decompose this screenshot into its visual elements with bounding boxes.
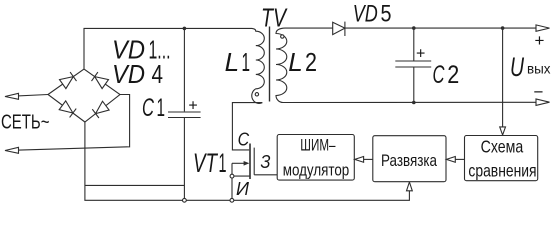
wire: gate to PWM block: [254, 174, 277, 176]
svg-text:1: 1: [157, 94, 166, 122]
svg-text:1: 1: [219, 148, 227, 178]
diode VD2 (upper-right): [95, 77, 109, 89]
svg-text:Схема: Схема: [481, 137, 524, 157]
svg-text:TV: TV: [261, 3, 288, 33]
polarity dot L1: [255, 93, 258, 96]
wire: minus output rail: [283, 101, 536, 103]
arrowhead + output: [536, 25, 550, 31]
svg-text:VD: VD: [112, 59, 145, 89]
wire: isolation to PWM: [364, 158, 373, 160]
svg-text:−: −: [534, 83, 544, 102]
node ring: VT1 source on rail: [230, 198, 234, 202]
wire: L1 to VT1 drain: [232, 103, 262, 150]
block PWM modulator: [277, 135, 354, 181]
node: C1 tap on bus: [183, 27, 187, 31]
transformer core: [269, 27, 271, 102]
transistor VT1 gate bar: [253, 148, 255, 175]
wire: AC input lower: [7, 95, 130, 151]
transistor VT1 substrate arrow: [232, 162, 245, 164]
wire: comparison to isolation: [455, 158, 464, 160]
svg-text:U: U: [510, 52, 524, 82]
svg-text:2: 2: [447, 61, 459, 89]
wire: minus rung to C1: [85, 184, 184, 186]
svg-text:+: +: [188, 97, 197, 114]
arrowhead into Razvyazka bottom: [407, 182, 413, 191]
svg-text:VT: VT: [193, 148, 219, 178]
transformer primary L1: [252, 28, 265, 103]
node: C2 bottom: [412, 101, 416, 105]
polarity dot L2: [281, 35, 284, 38]
svg-text:+: +: [535, 31, 545, 50]
svg-text:модулятор: модулятор: [283, 161, 350, 179]
wire: L2 top to VD5: [285, 27, 333, 29]
svg-text:С: С: [142, 94, 155, 122]
svg-text:1: 1: [242, 47, 251, 77]
arrowhead AC upper: [5, 93, 19, 99]
svg-text:З: З: [261, 152, 271, 172]
wire: substrate to source node: [231, 163, 233, 174]
wire: AC input upper: [7, 95, 48, 97]
capacitor C2: [413, 28, 415, 61]
diode VD5: [333, 22, 345, 34]
wire: DC minus rail from bridge: [85, 122, 410, 200]
svg-text:4: 4: [152, 59, 164, 89]
svg-text:+: +: [416, 45, 425, 62]
diode VD4 (lower-right): [96, 101, 110, 113]
svg-text:2: 2: [305, 47, 317, 77]
node ring: C1 on rail: [183, 198, 187, 202]
svg-text:И: И: [236, 179, 249, 199]
wire: source down to rail: [231, 178, 233, 198]
svg-text:5: 5: [381, 1, 392, 28]
svg-text:L: L: [225, 47, 240, 77]
arrowhead into isolation right: [446, 157, 455, 163]
svg-text:вых: вых: [527, 61, 551, 77]
node ring: VT1 source: [230, 174, 234, 178]
wire: bridge + to top bus: [84, 28, 252, 69]
svg-text:Развязка: Развязка: [381, 152, 438, 170]
svg-text:СЕТЬ~: СЕТЬ~: [1, 111, 50, 134]
arrowhead into comparison top: [500, 127, 506, 135]
svg-text:С: С: [238, 130, 250, 150]
svg-text:сравнения: сравнения: [468, 160, 536, 180]
node: feedback top: [501, 26, 505, 30]
svg-text:L: L: [288, 47, 303, 77]
transistor VT1 channel bar: [249, 144, 251, 180]
diode VD3 (lower-left): [59, 101, 73, 113]
block comparison circuit: [465, 136, 538, 181]
svg-text:VD: VD: [353, 1, 378, 28]
arrowhead - output: [536, 99, 550, 105]
block isolation (Razvyazka): [373, 136, 446, 182]
bridge rectifier ring VD1-VD4: [48, 69, 120, 122]
transistor VT1 source tap: [234, 175, 251, 177]
svg-text:ШИМ–: ШИМ–: [300, 136, 336, 154]
transformer secondary L2: [276, 28, 287, 102]
diode VD1 (upper-left): [60, 77, 74, 89]
wire: feedback down to comparison: [502, 28, 504, 127]
wire: VD5 to + output: [345, 27, 536, 29]
arrowhead AC lower: [5, 147, 19, 153]
node: C2 top: [412, 26, 416, 30]
svg-text:С: С: [433, 61, 446, 89]
capacitor C1: [183, 28, 185, 111]
arrowhead into PWM right: [355, 157, 364, 163]
